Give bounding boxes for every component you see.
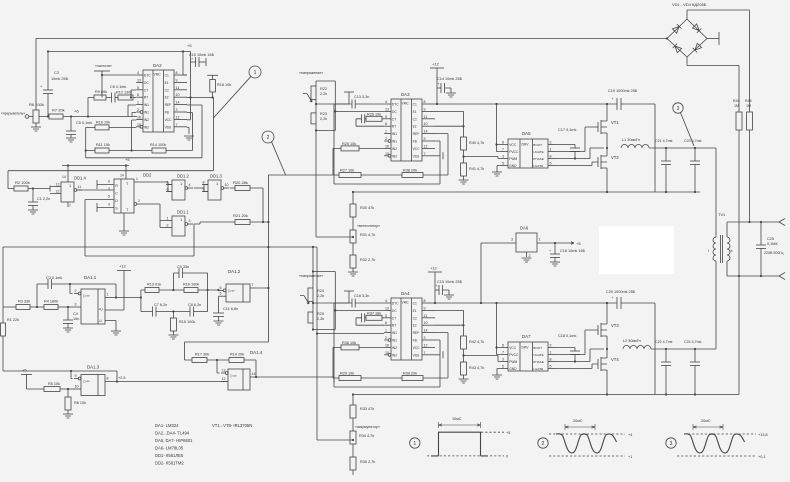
svg-text:14: 14 xyxy=(120,174,124,178)
svg-text:12: 12 xyxy=(176,115,180,119)
wire R4 to pin3 xyxy=(58,306,74,308)
svg-text:6: 6 xyxy=(137,93,139,97)
svg-text:DA1.1: DA1.1 xyxy=(84,275,97,280)
svg-text:R5 10k: R5 10k xyxy=(48,382,60,386)
waveform 2 sine xyxy=(556,434,617,453)
wire DD2 ground xyxy=(123,213,125,231)
svg-text:6: 6 xyxy=(167,188,169,192)
svg-text:1: 1 xyxy=(136,177,138,181)
svg-text:+2,5: +2,5 xyxy=(118,376,126,380)
resistor R13 xyxy=(145,288,159,293)
svg-text:15: 15 xyxy=(385,351,389,355)
svg-text:2: 2 xyxy=(550,343,552,347)
svg-text:IN1: IN1 xyxy=(392,339,397,343)
svg-text:12: 12 xyxy=(56,190,60,194)
wire CT jog DA2 xyxy=(131,90,136,98)
svg-text:R44: R44 xyxy=(733,99,740,103)
wire +5 rail DD xyxy=(62,165,129,167)
svg-text:7: 7 xyxy=(69,204,71,208)
logic gate DD1.3 xyxy=(208,180,221,200)
wire DD1.3 out to R20 xyxy=(230,187,235,189)
svg-text:R42 4,7k: R42 4,7k xyxy=(469,340,484,344)
wire twin-T bottom row xyxy=(141,311,208,313)
wire +5 rail y51 xyxy=(48,51,191,53)
circle label 3 waveform xyxy=(666,438,676,448)
wire FB loop to R14 xyxy=(187,113,193,151)
svg-text:DA5, DA7- HIP6601: DA5, DA7- HIP6601 xyxy=(155,438,193,443)
svg-text:+5: +5 xyxy=(506,431,510,435)
svg-text:14: 14 xyxy=(424,329,428,333)
wire DD1.1 out to R21 xyxy=(194,222,235,224)
svg-text:C2: C2 xyxy=(165,88,169,92)
svg-text:IN1: IN1 xyxy=(392,331,397,335)
wire DD1.2 out to DD1.3 xyxy=(194,185,208,192)
svg-text:VT1...VT8- IRL3705N: VT1...VT8- IRL3705N xyxy=(212,423,252,428)
wire E2 outer loop xyxy=(8,98,213,171)
wire E rows to R40 xyxy=(435,111,464,137)
wire VSS ground xyxy=(435,354,440,356)
svg-text:IN2: IN2 xyxy=(144,118,149,122)
wire bridge left to rail xyxy=(666,37,668,39)
wire VT3 drain xyxy=(606,303,608,324)
wire bottom row xyxy=(333,347,448,378)
wire UGATE to VT3 gate xyxy=(555,330,598,355)
white patch xyxy=(599,226,674,274)
output terminal bottom xyxy=(779,273,785,280)
svg-text:R24: R24 xyxy=(317,289,324,293)
wire secondary top lead xyxy=(727,222,779,237)
svg-text:VMC: VMC xyxy=(402,102,410,106)
wire R35 bottom xyxy=(352,470,354,475)
svg-text:L2 30мкГн: L2 30мкГн xyxy=(623,339,641,343)
capacitor C1 xyxy=(32,189,34,203)
wire L1 to output node xyxy=(649,147,716,149)
resistor R39 xyxy=(402,376,423,381)
wire C3 to pin2 and feedback xyxy=(52,284,117,298)
svg-text:C3 0,1mk: C3 0,1mk xyxy=(46,276,62,280)
resistor R25b xyxy=(308,312,313,323)
svg-text:VCC: VCC xyxy=(413,346,421,350)
svg-text:1: 1 xyxy=(550,350,552,354)
wire OC branch xyxy=(335,110,384,112)
svg-text:IN2: IN2 xyxy=(392,353,397,357)
svg-text:0,1МК: 0,1МК xyxy=(767,242,778,246)
circle label 2 waveform xyxy=(538,438,548,448)
svg-text:C9 33n: C9 33n xyxy=(177,265,189,269)
svg-text:E1: E1 xyxy=(413,110,417,114)
wire CT row xyxy=(356,119,384,126)
wire R44 down xyxy=(738,130,740,276)
wire DA1.4 out long xyxy=(256,376,334,378)
wire PHASE row xyxy=(555,148,604,159)
svg-text:VT1: VT1 xyxy=(611,120,619,125)
svg-text:R16 100k: R16 100k xyxy=(183,283,199,287)
svg-text:LGATE: LGATE xyxy=(533,164,543,168)
svg-text:DD1- К561ЛЕ5: DD1- К561ЛЕ5 xyxy=(155,453,184,458)
svg-text:R4 180k: R4 180k xyxy=(44,300,58,304)
svg-text:C19 1000mk 25Б: C19 1000mk 25Б xyxy=(608,89,638,93)
resistor R43 xyxy=(461,362,467,375)
wire branch to R31 xyxy=(316,236,353,238)
svg-text:R9 89k: R9 89k xyxy=(95,90,107,94)
wire rail drop x317 xyxy=(316,247,318,440)
svg-text:6: 6 xyxy=(502,140,504,144)
svg-text:E1: E1 xyxy=(165,81,169,85)
svg-text:3: 3 xyxy=(677,106,680,112)
wire pin3 row DA1.1 xyxy=(3,306,16,308)
svg-text:PVCC: PVCC xyxy=(509,353,519,357)
svg-text:15n: 15n xyxy=(73,317,79,321)
resistor R27 xyxy=(339,173,361,178)
wire R40 R41 junction to PWM xyxy=(464,150,502,163)
circle label 1 waveform xyxy=(410,438,420,448)
wire +12 vertical DA3 xyxy=(436,68,438,104)
svg-text:C18 10mk 16Б: C18 10mk 16Б xyxy=(560,249,586,253)
svg-text:R36 10k: R36 10k xyxy=(342,341,356,345)
svg-text:1: 1 xyxy=(413,441,416,447)
leader line 3 xyxy=(681,113,695,146)
resistor R7 xyxy=(49,114,63,119)
resistor R21 xyxy=(235,220,250,225)
capacitor CT DA3 xyxy=(361,114,363,123)
svg-text:5: 5 xyxy=(502,161,504,165)
svg-text:C: C xyxy=(115,192,118,196)
svg-text:R38 20k: R38 20k xyxy=(403,169,417,173)
svg-text:IN2: IN2 xyxy=(392,346,397,350)
svg-text:+: + xyxy=(612,296,614,300)
svg-text:RT: RT xyxy=(392,324,396,328)
svg-text:OC: OC xyxy=(392,110,398,114)
wire left rail down xyxy=(2,247,4,323)
svg-text:R10 10k: R10 10k xyxy=(96,120,110,124)
svg-text:C1: C1 xyxy=(413,103,417,107)
wire DTC row xyxy=(355,103,384,105)
wire left drop to R2 xyxy=(8,171,14,189)
wire VCC to +5 xyxy=(187,52,191,120)
wire R9 left branch xyxy=(87,98,89,117)
svg-text:4: 4 xyxy=(137,71,139,75)
wire return row top xyxy=(353,191,700,193)
svg-text:15: 15 xyxy=(137,123,141,127)
svg-text:L1 30мкГн: L1 30мкГн xyxy=(622,138,640,142)
wire VSS ground xyxy=(435,155,440,157)
ground R6 xyxy=(35,123,37,127)
svg-text:CT: CT xyxy=(392,117,396,121)
wire DA1.4 out joins loop xyxy=(333,377,335,383)
svg-text:20мС: 20мС xyxy=(701,419,711,423)
resistor R40 xyxy=(461,137,467,150)
svg-text:IN2: IN2 xyxy=(144,125,149,129)
svg-text:DA3: DA3 xyxy=(401,92,410,97)
driver IC DA5 xyxy=(508,139,548,168)
svg-text:II: II xyxy=(731,249,733,253)
svg-text:7: 7 xyxy=(424,351,426,355)
svg-text:R25: R25 xyxy=(317,312,324,316)
wire FB outer loop xyxy=(334,303,440,387)
wire C18 to phase xyxy=(574,355,576,362)
svg-text:VD1...VD4 КД208Б: VD1...VD4 КД208Б xyxy=(672,2,707,7)
svg-text:D: D xyxy=(115,199,118,203)
svg-text:2,2k: 2,2k xyxy=(320,92,327,96)
wire R9 row xyxy=(88,97,136,99)
wire DD1.4 out to DD2 C xyxy=(77,189,114,191)
op-amp DA1.3 xyxy=(81,375,105,396)
svg-text:E2: E2 xyxy=(413,125,417,129)
capacitor C14 xyxy=(437,87,441,89)
svg-text:C7 6,2n: C7 6,2n xyxy=(154,303,167,307)
svg-text:1: 1 xyxy=(254,70,257,76)
svg-text:5: 5 xyxy=(108,195,110,199)
wire trimmer arrow R22 xyxy=(303,94,312,102)
svg-text:14: 14 xyxy=(424,130,428,134)
capacitor C5 xyxy=(70,117,72,132)
svg-text:DRV: DRV xyxy=(522,346,530,350)
transistor VT1 xyxy=(598,120,601,134)
svg-text:+1: +1 xyxy=(628,455,632,459)
wire left rail lower xyxy=(2,336,4,371)
wire DA1.3 out row xyxy=(111,381,228,383)
svg-text:R2 100k: R2 100k xyxy=(15,180,30,185)
svg-text:VMC: VMC xyxy=(154,73,162,77)
svg-text:2: 2 xyxy=(542,441,545,447)
svg-text:5: 5 xyxy=(137,86,139,90)
resistor R29 xyxy=(339,376,361,381)
wire C17 to phase xyxy=(574,152,576,159)
svg-text:IN2: IN2 xyxy=(392,154,397,158)
svg-text:DRV: DRV xyxy=(522,143,530,147)
svg-text:IN1: IN1 xyxy=(392,140,397,144)
wire primary top lead xyxy=(715,148,717,237)
wire DA6 input from +12 rail xyxy=(481,243,510,303)
wire BOOT row bottom xyxy=(555,348,575,352)
op-amp DA1.4 xyxy=(228,369,250,390)
resistor R26 xyxy=(366,116,382,121)
svg-text:R11 15k: R11 15k xyxy=(96,143,110,147)
svg-text:R43 4,7k: R43 4,7k xyxy=(469,366,484,370)
svg-text:1: 1 xyxy=(137,101,139,105)
resistor R32 xyxy=(350,255,356,268)
svg-text:C18 0,1mk: C18 0,1mk xyxy=(558,334,576,338)
svg-text:1: 1 xyxy=(167,217,169,221)
wire R42 R43 junction to PWM xyxy=(464,349,502,362)
wire primary bottom lead xyxy=(715,261,717,349)
svg-text:1: 1 xyxy=(385,329,387,333)
svg-text:PHASE: PHASE xyxy=(533,157,544,161)
svg-text:DD2- К561ТМ2: DD2- К561ТМ2 xyxy=(155,461,184,466)
svg-text:5: 5 xyxy=(550,161,552,165)
svg-text:C5 0,1mk: C5 0,1mk xyxy=(76,121,92,125)
svg-text:R39 20k: R39 20k xyxy=(403,372,417,376)
svg-text:▷∞: ▷∞ xyxy=(84,379,90,384)
waveform 2 time arrows xyxy=(565,424,595,430)
wire C19 right to return xyxy=(621,104,655,192)
transistor VT3 xyxy=(598,323,601,337)
resistor R25 xyxy=(341,146,359,151)
svg-text:+U: +U xyxy=(99,308,104,312)
svg-text:10: 10 xyxy=(424,122,428,126)
svg-text:VSS: VSS xyxy=(413,154,420,158)
driver IC DA7 xyxy=(508,342,548,371)
wire rail y103.5 top xyxy=(435,103,617,105)
wire DD2 R input xyxy=(97,184,114,186)
wire R34 R35 xyxy=(352,444,354,457)
svg-text:GND: GND xyxy=(509,164,517,168)
wire pin16 vertical xyxy=(132,120,137,151)
svg-text:10мС: 10мС xyxy=(452,417,462,421)
capacitor C15 xyxy=(435,289,439,291)
svg-text:5: 5 xyxy=(502,364,504,368)
svg-text:2: 2 xyxy=(138,199,140,203)
svg-text:3: 3 xyxy=(670,441,673,447)
svg-text:+: + xyxy=(436,284,438,288)
svg-text:+: + xyxy=(438,82,440,86)
svg-text:5: 5 xyxy=(385,115,387,119)
circle label 3 xyxy=(673,103,683,113)
svg-text:R33 47k: R33 47k xyxy=(360,407,374,411)
svg-text:C22 4,7mk: C22 4,7mk xyxy=(655,340,673,344)
svg-text:▷∞: ▷∞ xyxy=(231,373,237,378)
wire DD2 out pin2 xyxy=(134,203,137,206)
resistor R31 xyxy=(350,230,356,243)
resistor R4 xyxy=(44,305,58,310)
svg-text:«прерыватель»: «прерыватель» xyxy=(1,112,25,116)
wire chastota stem xyxy=(101,71,103,98)
svg-text:3: 3 xyxy=(424,336,426,340)
svg-text:OC: OC xyxy=(392,309,398,313)
wire DD1.4 top pin xyxy=(67,166,69,183)
svg-text:E1: E1 xyxy=(413,309,417,313)
svg-text:7: 7 xyxy=(176,123,178,127)
wire DD2 S input xyxy=(97,207,114,209)
svg-text:10: 10 xyxy=(75,385,79,389)
output terminal top xyxy=(779,219,785,226)
svg-text:C25: C25 xyxy=(767,237,774,241)
svg-text:6: 6 xyxy=(220,286,222,290)
svg-text:E2: E2 xyxy=(165,96,169,100)
svg-text:3: 3 xyxy=(424,137,426,141)
svg-text:3: 3 xyxy=(75,303,77,307)
svg-text:DA6: DA6 xyxy=(520,226,529,231)
svg-text:+5: +5 xyxy=(22,368,27,373)
svg-text:1: 1 xyxy=(550,147,552,151)
svg-text:6: 6 xyxy=(108,180,110,184)
wire R17 R19 row xyxy=(207,359,229,361)
capacitor C17 xyxy=(570,147,580,149)
wire VT4 drain xyxy=(606,349,608,358)
svg-text:+12: +12 xyxy=(430,266,438,271)
wire R10 left vertical xyxy=(85,127,87,157)
svg-text:CT: CT xyxy=(392,316,396,320)
svg-text:DD1.3: DD1.3 xyxy=(210,174,223,179)
wire bridge bottom out xyxy=(687,57,739,112)
svg-text:DA6- LM78L05: DA6- LM78L05 xyxy=(155,446,184,451)
wire R23 down long xyxy=(315,131,317,238)
svg-text:10: 10 xyxy=(424,321,428,325)
svg-text:C2: C2 xyxy=(413,117,417,121)
wire DD2 D input xyxy=(85,199,114,201)
svg-text:C11 6,8n: C11 6,8n xyxy=(223,307,238,311)
ground R41 xyxy=(463,176,465,180)
svg-text:2: 2 xyxy=(75,289,77,293)
svg-text:VCC: VCC xyxy=(509,143,517,147)
wire R23 bottom row xyxy=(316,124,335,131)
ground chain1 xyxy=(352,268,354,272)
wire return row bottom xyxy=(353,276,739,395)
wire bottom row xyxy=(333,148,448,175)
svg-text:R22: R22 xyxy=(320,87,327,91)
resistor R42 xyxy=(461,336,467,349)
resistor R20 xyxy=(235,186,250,191)
svg-text:2: 2 xyxy=(385,336,387,340)
svg-text:R12 130k: R12 130k xyxy=(116,91,132,95)
wire twin-T top row xyxy=(141,290,219,312)
wire DD2 top pin xyxy=(125,166,127,180)
svg-text:R23: R23 xyxy=(320,112,327,116)
svg-text:R14 100k: R14 100k xyxy=(150,143,166,147)
svg-text:11: 11 xyxy=(176,86,180,90)
transistor VT4 xyxy=(598,357,601,371)
wire DA5 GND xyxy=(497,166,501,173)
svg-text:4: 4 xyxy=(189,183,191,187)
svg-text:4: 4 xyxy=(108,203,110,207)
ground R8 xyxy=(67,410,69,414)
logic gate DD1.1 xyxy=(172,216,185,236)
svg-text:UGATE: UGATE xyxy=(533,353,543,357)
svg-text:R20 28k: R20 28k xyxy=(233,180,248,185)
wire R33 R34 xyxy=(352,418,354,431)
svg-text:3: 3 xyxy=(511,238,513,242)
svg-text:PHASE: PHASE xyxy=(533,360,544,364)
svg-text:3: 3 xyxy=(108,187,110,191)
wire R24 top from rail xyxy=(312,247,314,288)
resistor R8 xyxy=(67,389,69,397)
svg-text:0: 0 xyxy=(506,455,508,459)
svg-text:10: 10 xyxy=(225,183,229,187)
svg-text:16: 16 xyxy=(385,144,389,148)
wire LGATE to VT2 gate xyxy=(555,162,598,166)
svg-text:VSS: VSS xyxy=(165,125,172,129)
wire R5 to pin10 xyxy=(60,388,74,390)
svg-text:20мС: 20мС xyxy=(573,419,583,423)
waveform 3 sine xyxy=(684,434,745,453)
PWM controller DA2 xyxy=(143,70,174,132)
svg-text:R30 47k: R30 47k xyxy=(360,206,374,210)
wire bridge top out xyxy=(687,10,750,112)
svg-text:13: 13 xyxy=(137,78,141,82)
wire CT row xyxy=(356,318,384,325)
waveform 1 time arrows xyxy=(439,422,481,428)
svg-text:C24 4,7mk: C24 4,7mk xyxy=(684,340,702,344)
svg-text:R25 10k: R25 10k xyxy=(342,142,356,146)
svg-text:11: 11 xyxy=(424,115,428,119)
svg-text:R35 2,7k: R35 2,7k xyxy=(360,460,375,464)
svg-text:DA2...DA4- TL494: DA2...DA4- TL494 xyxy=(155,431,190,436)
svg-text:C21 4,7mk: C21 4,7mk xyxy=(655,139,673,143)
resistor R11 xyxy=(95,148,109,153)
svg-text:R1 22k: R1 22k xyxy=(7,318,19,322)
svg-text:C2: C2 xyxy=(413,316,417,320)
resistor R38 xyxy=(402,173,423,178)
svg-text:C16 3,3n: C16 3,3n xyxy=(354,294,369,298)
svg-text:LGATE: LGATE xyxy=(533,367,543,371)
svg-text:DA1- LM324: DA1- LM324 xyxy=(155,423,179,428)
capacitor C7 xyxy=(152,307,154,317)
svg-text:1: 1 xyxy=(107,293,109,297)
svg-text:R19 20k: R19 20k xyxy=(230,353,244,357)
waveform 1 square wave xyxy=(431,432,488,456)
svg-text:7: 7 xyxy=(424,152,426,156)
svg-text:8: 8 xyxy=(550,357,552,361)
